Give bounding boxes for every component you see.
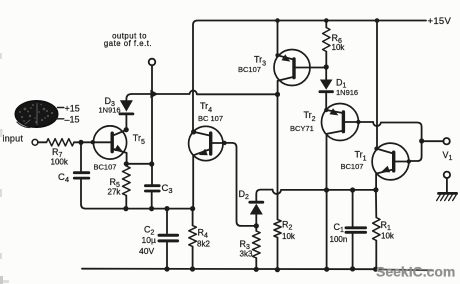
svg-text:3k3: 3k3 [240, 250, 253, 259]
svg-text:10k: 10k [282, 232, 296, 241]
resistor R4 [189, 209, 197, 269]
svg-text:gate of f.e.t.: gate of f.e.t. [104, 39, 152, 48]
label 27k (R5) [108, 187, 122, 196]
label BCY71 (Tr2) [290, 124, 314, 133]
node Tr2 base edge [356, 120, 360, 124]
left edge smudges (scan artifacts) [0, 53, 9, 284]
transistor Tr5 [93, 126, 126, 164]
logo blob [15, 101, 58, 128]
node R4 top [190, 206, 195, 211]
svg-text:100k: 100k [51, 157, 69, 166]
label R5 [110, 177, 121, 189]
node C3 top junction [149, 161, 154, 166]
wire Tr2 base to output [373, 122, 421, 161]
svg-text:100n: 100n [330, 235, 348, 244]
label R3 [240, 239, 251, 251]
label Tr5 [133, 133, 145, 146]
svg-text:BC 107: BC 107 [198, 114, 223, 123]
capacitor C4 [74, 173, 89, 178]
label output to gate of f.e.t. [104, 31, 152, 48]
node D2 anode junction [254, 223, 259, 228]
svg-text:input: input [3, 133, 24, 143]
svg-text:R1: R1 [381, 220, 392, 232]
label 8k2 (R4) [197, 240, 210, 249]
node rail-R3 [254, 267, 259, 272]
wire C4 top lead [80, 142, 82, 171]
svg-text:V1: V1 [443, 150, 453, 162]
svg-text:10k: 10k [381, 232, 395, 241]
wire Tr5 emitter to C3 [126, 163, 151, 165]
terminal V1 [443, 138, 449, 144]
resistor R1 [373, 190, 380, 269]
wire ground rail [82, 269, 433, 271]
resistor R3 [253, 226, 261, 269]
svg-text:SeekIC.com: SeekIC.com [376, 264, 455, 280]
node rail-C1 [350, 266, 355, 271]
label D1 [336, 77, 347, 89]
label R6 [332, 33, 343, 45]
label BC107 (Tr5) [94, 162, 117, 171]
wire Tr3 emitter to rail [277, 21, 279, 56]
wire +15V top rail [193, 21, 426, 133]
label BC107 (Tr3) [238, 65, 261, 74]
node Tr5 base [91, 140, 95, 144]
wire C1 top lead [352, 190, 354, 226]
label BC107 (Tr4) [198, 114, 223, 123]
svg-text:BCY71: BCY71 [290, 124, 314, 133]
node R5 bottom [123, 206, 128, 211]
svg-text:1N916: 1N916 [99, 105, 121, 114]
svg-text:C3: C3 [162, 183, 173, 195]
node D3-Tr5 collector [124, 127, 129, 132]
diode D1 [320, 67, 333, 108]
wire Tr2 collector bus y190 [273, 190, 376, 194]
resistor R5 [123, 166, 131, 209]
wire input to R7 [38, 141, 47, 143]
svg-text:+15: +15 [65, 103, 80, 113]
label +15 [65, 103, 80, 113]
label 3k3 (R3) [240, 250, 253, 259]
node rail-R6 [324, 18, 329, 23]
label 10k (R6) [332, 43, 346, 52]
wire collector bus y94 [126, 91, 277, 101]
wire C4 to ground bus [81, 180, 193, 209]
node output junction [419, 138, 424, 143]
node rail-Tr1 [375, 18, 380, 23]
svg-text:C1: C1 [334, 222, 345, 234]
node rail-R2 [275, 267, 280, 272]
svg-text:BC107: BC107 [94, 162, 117, 171]
node Tr5 emitter junction [124, 161, 129, 166]
label C2 [144, 225, 155, 237]
node Tr4 base [222, 141, 226, 145]
node output-arrow junction [150, 90, 158, 99]
label 40V (C2) [139, 246, 154, 256]
wire +15 feed to Tr1 collector [376, 21, 378, 148]
node Tr3 base / R6 bottom [324, 64, 329, 69]
label 100k (R7) [51, 157, 69, 166]
node rail-C2 [164, 266, 169, 271]
label 100n (C1) [330, 235, 348, 244]
label 10k (R2) [282, 232, 296, 241]
ground [437, 178, 457, 201]
wire C2 top lead [166, 209, 168, 234]
svg-text:Tr1: Tr1 [355, 149, 367, 162]
node rail-R4 [190, 266, 195, 271]
resistor R2 [274, 220, 281, 270]
label Tr3 [254, 54, 266, 67]
wire R7 to Tr5 base [74, 141, 93, 143]
watermark SeekIC.com [376, 264, 455, 280]
node C1 top [350, 187, 355, 192]
label R2 [282, 220, 293, 232]
wire Tr2 collector to rail [326, 190, 328, 269]
svg-text:BC107: BC107 [238, 65, 261, 74]
label 10u (C2) [142, 235, 156, 245]
transistor Tr3 [274, 50, 324, 95]
label C3 [162, 183, 173, 195]
node R7-C4 junction [78, 140, 83, 145]
svg-text:+15V: +15V [428, 16, 452, 27]
transistor Tr1 [372, 143, 409, 190]
node Tr1 emitter junction [373, 187, 378, 192]
svg-text:Tr2: Tr2 [304, 110, 316, 123]
label V1 [443, 150, 453, 162]
label +15V [428, 16, 452, 27]
label C4 [58, 172, 69, 184]
svg-text:40V: 40V [139, 246, 154, 256]
terminal output to gate of f.e.t. [149, 59, 156, 66]
node Tr2 collector junction [324, 187, 329, 192]
wire C1 to rail [352, 234, 354, 269]
resistor R7 [47, 139, 75, 146]
svg-text:10µ: 10µ [142, 235, 156, 245]
label R7 [52, 147, 63, 159]
label 1N916 (D1) [336, 88, 358, 97]
svg-text:D2: D2 [239, 189, 250, 201]
terminal ground [444, 172, 450, 178]
label input [3, 133, 24, 143]
diode D3 [120, 100, 133, 128]
node Tr1 collector [374, 147, 378, 151]
transistor Tr2 [322, 104, 374, 191]
node D1-Tr2 emitter [324, 108, 328, 112]
svg-text:1N916: 1N916 [336, 88, 358, 97]
label 10k (R1) [381, 232, 395, 241]
node rail-R1 [373, 267, 378, 272]
wire blob +15 [58, 107, 64, 109]
node R2 top / Tr3 collector [275, 92, 280, 97]
wire C2 to rail [166, 243, 168, 270]
capacitor C1 [346, 228, 366, 233]
label Tr4 [200, 101, 212, 114]
node Tr4 collector [191, 129, 196, 134]
label BC107 (Tr1) [341, 162, 364, 171]
capacitor C2 [159, 235, 178, 241]
svg-text:Tr4: Tr4 [200, 101, 212, 114]
label Tr1 [355, 149, 367, 162]
wire output terminal to C3 [151, 65, 153, 184]
svg-text:10k: 10k [332, 43, 346, 52]
transistor Tr4 [189, 126, 225, 208]
svg-text:8k2: 8k2 [197, 240, 210, 249]
svg-text:BC107: BC107 [341, 162, 364, 171]
node C3 bottom [149, 206, 154, 211]
label R1 [381, 220, 392, 232]
node rail-Tr2-collector [324, 267, 329, 272]
label 1N916 (D3) [99, 105, 121, 114]
label D2 [239, 189, 250, 201]
node Tr3 emitter top [275, 53, 279, 57]
resistor R6 [323, 21, 330, 65]
label D3 [105, 96, 116, 108]
label R4 [198, 228, 209, 240]
diode D2 [250, 190, 273, 226]
svg-text:27k: 27k [108, 187, 122, 196]
label Tr2 [304, 110, 316, 123]
capacitor C3 [145, 186, 159, 209]
wire Tr4 base to D2 anode [225, 143, 254, 226]
svg-text:C4: C4 [58, 172, 69, 184]
svg-text:R2: R2 [282, 220, 293, 232]
wire to V1 terminal [424, 140, 443, 142]
node C2 top [164, 206, 169, 211]
svg-text:–15: –15 [65, 115, 80, 125]
label -15 [65, 115, 80, 125]
wire R2 top lead [277, 94, 279, 219]
terminal input [32, 139, 38, 145]
label C1 [334, 222, 345, 234]
node Tr1 base edge [407, 159, 411, 163]
svg-text:Tr5: Tr5 [133, 133, 145, 146]
node rail-Tr3 [275, 18, 280, 23]
svg-text:R4: R4 [198, 228, 209, 240]
wire blob -15 [57, 118, 64, 120]
